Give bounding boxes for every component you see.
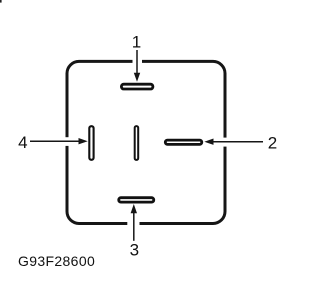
arrow 3 (bottom, pointing up) [131, 204, 137, 241]
relay connector body outline [67, 61, 225, 223]
svg-text:3: 3 [130, 241, 139, 260]
scan speck top-left corner [0, 0, 2, 3]
svg-text:4: 4 [18, 133, 27, 152]
terminal slot pin 2 (right horizontal) [165, 140, 202, 144]
arrow 2 (right, pointing left) [204, 139, 263, 145]
gap in top edge for arrow 1 [133, 58, 143, 65]
arrow 1 (top, pointing down) [134, 50, 140, 82]
gap in left edge for arrow 4 [63, 137, 70, 146]
terminal slot center (common vertical) [135, 126, 139, 160]
terminal slot pin 1 (top horizontal) [121, 84, 152, 89]
gap in bottom edge for arrow 3 [127, 220, 139, 227]
arrow 4 (left, pointing right) [30, 138, 88, 144]
gap in right edge for arrow 2 [222, 138, 229, 147]
svg-text:2: 2 [268, 134, 277, 153]
terminal slot pin 3 (bottom horizontal) [119, 198, 154, 202]
svg-text:1: 1 [132, 32, 141, 51]
terminal slot pin 4 (left vertical) [89, 126, 93, 160]
svg-text:G93F28600: G93F28600 [18, 253, 95, 269]
